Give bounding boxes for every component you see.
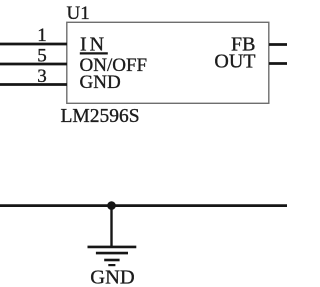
wire: ground net to pin 3 (0, 83, 67, 86)
svg-text:3: 3 (37, 66, 47, 87)
net label GND (90, 267, 134, 287)
pin name IN (underlined) (80, 33, 108, 55)
svg-text:GND: GND (90, 267, 134, 287)
svg-text:5: 5 (37, 46, 47, 67)
svg-text:IN: IN (80, 33, 107, 55)
svg-text:OUT: OUT (214, 51, 255, 73)
junction dot (107, 201, 116, 210)
pin number 1 (37, 25, 47, 46)
pin name FB (231, 34, 255, 56)
pin name ON/OFF (80, 55, 148, 76)
svg-text:GND: GND (80, 72, 121, 93)
wire: ground bus (0, 204, 287, 207)
ground symbol (88, 206, 137, 266)
wire: feedback net from FB pin (269, 43, 287, 46)
svg-text:U1: U1 (67, 3, 90, 24)
svg-text:LM2596S: LM2596S (61, 106, 140, 127)
refdes label U1 (67, 3, 90, 24)
value label LM2596S (61, 106, 140, 127)
pin name GND (80, 72, 121, 93)
pin name OUT (214, 51, 255, 73)
wire: input net to pin 1 (0, 43, 67, 46)
svg-text:1: 1 (37, 25, 47, 46)
wire: on/off net to pin 5 (0, 63, 67, 66)
pin number 3 (37, 66, 47, 87)
pin number 5 (37, 46, 47, 67)
regulator U1 body (67, 22, 269, 103)
wire: output net from OUT pin (269, 62, 287, 65)
